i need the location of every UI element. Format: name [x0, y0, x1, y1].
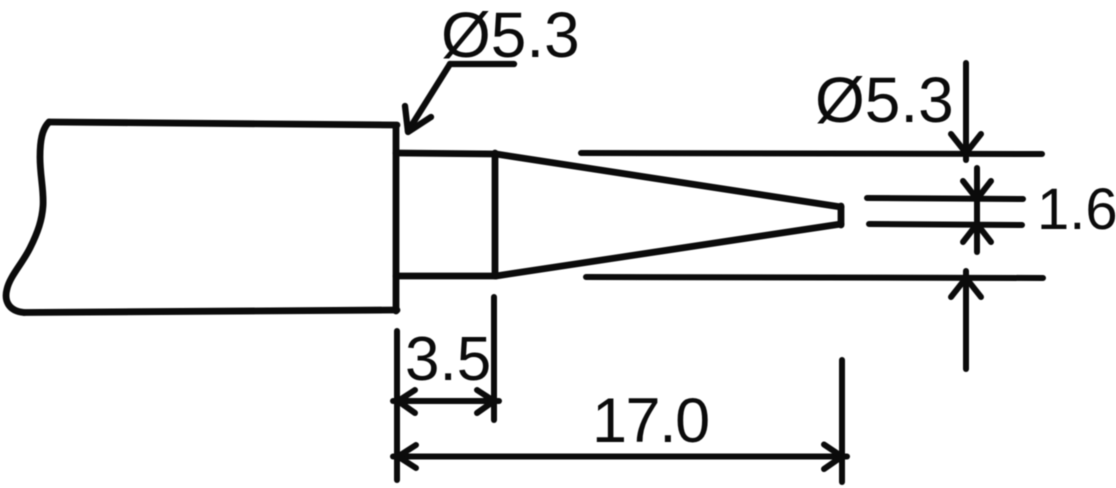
shaft bottom edge	[396, 273, 496, 280]
cone top edge	[496, 154, 841, 207]
dia 5.3 lower dimension line	[963, 271, 969, 369]
shaft top edge	[396, 153, 496, 154]
tip top extension line	[867, 198, 1023, 199]
leader underline	[450, 61, 514, 67]
body right edge	[393, 126, 400, 311]
1.6 lower arrowhead	[963, 224, 991, 242]
svg-text:Ø5.3: Ø5.3	[815, 64, 954, 136]
leader arrowhead	[405, 106, 431, 132]
dia 5.3 upper arrowhead	[951, 134, 981, 153]
body bottom edge	[24, 310, 397, 313]
17.0 right extension line	[839, 360, 845, 482]
dia 5.3 upper dimension line	[963, 63, 969, 160]
svg-text:1.6: 1.6	[1037, 177, 1116, 242]
1.6 upper arrowhead	[963, 181, 991, 199]
extension line bottom diameter	[586, 277, 1043, 278]
cone bottom edge	[496, 224, 841, 276]
extension line top diameter	[581, 153, 1042, 154]
1.6 dimension line	[974, 168, 980, 252]
svg-text:3.5: 3.5	[405, 325, 491, 394]
svg-text:Ø5.3: Ø5.3	[441, 0, 580, 71]
3.5 dimension line	[393, 398, 499, 404]
17.0 left arrowhead	[398, 445, 416, 468]
body top edge	[49, 122, 397, 125]
tip bottom extension line	[869, 224, 1022, 225]
3.5 right arrowhead	[477, 390, 494, 413]
cone flat tip	[838, 206, 845, 225]
body break line (wavy left edge)	[6, 122, 49, 313]
svg-text:17.0: 17.0	[592, 386, 709, 456]
17.0 right arrowhead	[824, 445, 842, 470]
3.5 left extension line	[394, 331, 400, 480]
leader diagonal	[408, 64, 450, 131]
dia 5.3 lower arrowhead	[951, 278, 981, 297]
shaft-cone junction line	[492, 153, 499, 276]
17.0 dimension line	[393, 454, 847, 460]
3.5 left arrowhead	[398, 390, 415, 413]
3.5 right extension line	[491, 297, 497, 420]
